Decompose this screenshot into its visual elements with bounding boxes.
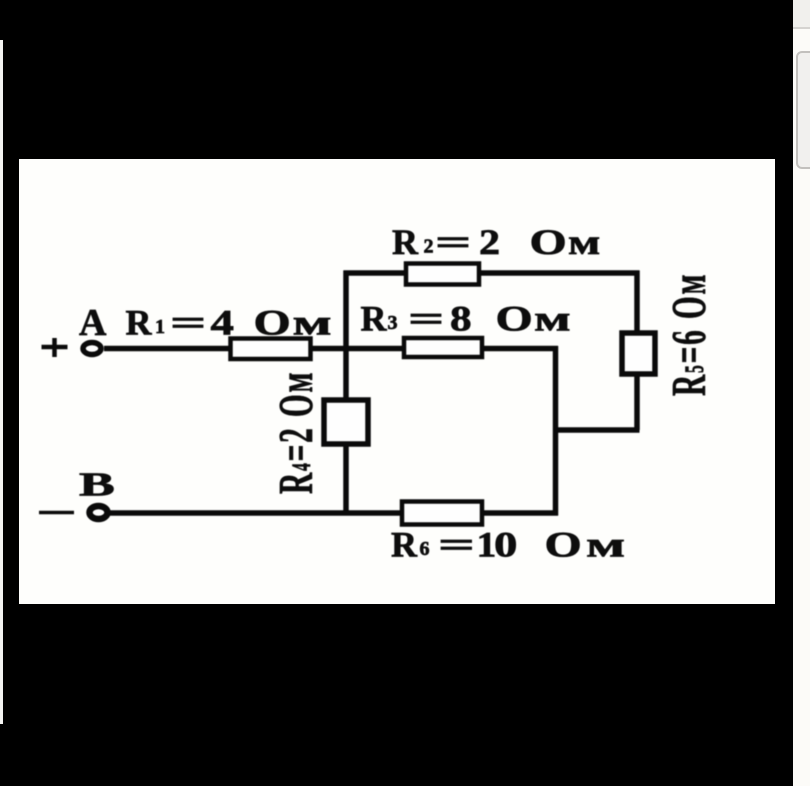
right scrollbar track column: [793, 0, 810, 786]
scrollbar separator line: [793, 27, 810, 29]
svg-text:4: 4: [211, 303, 235, 343]
scrollbar thumb: [796, 51, 810, 169]
svg-text:1: 1: [155, 316, 165, 338]
resistor R4: [324, 400, 368, 444]
svg-text:R5=6 Ом: R5=6 Ом: [661, 273, 716, 396]
svg-text:м: м: [293, 303, 332, 343]
svg-text:8: 8: [450, 299, 472, 339]
minus sign: [39, 511, 74, 515]
svg-text:=: =: [408, 299, 444, 339]
svg-text:A: A: [79, 302, 107, 344]
wire right vertical R5 branch: [634, 271, 640, 431]
wire mid vertical down: [553, 346, 559, 516]
svg-text:О: О: [496, 299, 533, 339]
svg-text:м: м: [534, 298, 571, 338]
svg-text:2: 2: [479, 223, 500, 263]
svg-text:м: м: [568, 222, 600, 262]
left edge white strip: [0, 40, 3, 724]
svg-text:R4=2 Ом: R4=2 Ом: [268, 371, 323, 494]
label R2=2 Om: [392, 222, 600, 263]
resistor R3: [404, 338, 482, 357]
svg-text:3: 3: [388, 312, 398, 334]
resistor R6: [402, 502, 482, 525]
svg-text:2: 2: [424, 236, 434, 258]
scrollbar top button zone: [793, 0, 810, 27]
terminal A node: [83, 343, 101, 355]
plus sign: [42, 338, 68, 357]
label R1=4 Om: [126, 303, 332, 344]
wire bottom B to corner: [110, 510, 558, 516]
svg-text:B: B: [79, 465, 115, 503]
wire R3 to right vertical: [480, 346, 558, 352]
wire vertical branch R2/R4: [343, 271, 349, 514]
wire connector R5 bottom to mid vertical: [553, 427, 640, 433]
svg-text:R: R: [392, 222, 419, 262]
terminal B node: [90, 506, 108, 519]
svg-text:=: =: [435, 223, 471, 263]
svg-text:0: 0: [494, 525, 517, 565]
wire A to R1: [104, 346, 232, 352]
svg-text:=: =: [170, 303, 206, 343]
wire top R2 branch: [344, 270, 640, 276]
white schematic card: [19, 159, 775, 604]
resistor R2: [406, 264, 479, 285]
svg-text:R: R: [361, 299, 388, 339]
svg-text:6: 6: [420, 538, 430, 560]
label R6=10 Om: [391, 525, 625, 566]
svg-text:О: О: [530, 223, 567, 263]
svg-text:О: О: [545, 525, 582, 565]
label R3=8 Om: [361, 298, 571, 339]
svg-text:R: R: [126, 303, 153, 343]
svg-text:=: =: [438, 525, 475, 565]
resistor R1: [231, 339, 311, 360]
svg-text:м: м: [586, 525, 625, 565]
resistor R5: [622, 333, 655, 374]
svg-text:R: R: [391, 525, 418, 565]
svg-text:О: О: [254, 303, 291, 343]
wire R1 to R3: [309, 346, 406, 352]
